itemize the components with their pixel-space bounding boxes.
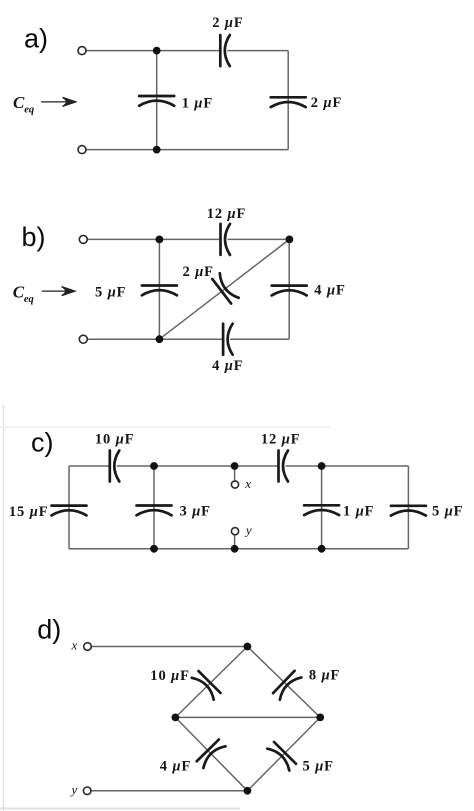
a) wire top left bbox=[86, 50, 220, 52]
node junction b top-right bbox=[286, 236, 294, 244]
d) wire edge top-right bbox=[247, 647, 320, 718]
svg-text:c): c) bbox=[31, 428, 54, 458]
svg-text:15 μF: 15 μF bbox=[9, 504, 49, 520]
d) wire x lead bbox=[91, 646, 247, 648]
node junction c top 3uF bbox=[150, 462, 158, 470]
capacitor C 4uF of d bbox=[197, 740, 226, 769]
capacitor C 10uF of d bbox=[192, 671, 221, 700]
capacitor C 2uF diagonal of b bbox=[212, 273, 238, 303]
capacitor C 4uF right of b bbox=[272, 286, 307, 296]
svg-text:y: y bbox=[244, 523, 252, 538]
node d top bbox=[244, 643, 252, 651]
b) wire left branch bbox=[158, 239, 160, 339]
svg-text:5 μF: 5 μF bbox=[95, 285, 126, 301]
c) wire top bbox=[69, 465, 408, 467]
capacitor C 15uF of c bbox=[52, 506, 87, 516]
b) wire top left bbox=[87, 238, 220, 240]
svg-text:2 μF: 2 μF bbox=[311, 95, 342, 111]
a) wire right branch bbox=[287, 51, 289, 150]
capacitor C 5uF of d bbox=[267, 742, 296, 771]
capacitor C 1uF of a bbox=[139, 96, 174, 106]
b) wire diagonal bbox=[159, 239, 289, 339]
svg-text:5 μF: 5 μF bbox=[432, 504, 463, 520]
node junction c top x bbox=[231, 462, 239, 470]
arrow Ceq a bbox=[41, 97, 76, 106]
node junction b bottom-left bbox=[156, 335, 164, 343]
capacitor C 2uF right of a bbox=[271, 97, 306, 107]
c) wire bottom bbox=[69, 548, 408, 550]
svg-text:1 μF: 1 μF bbox=[182, 96, 213, 112]
svg-text:8 μF: 8 μF bbox=[309, 668, 340, 684]
capacitor C 12uF of c bbox=[279, 451, 289, 482]
svg-text:a): a) bbox=[24, 23, 48, 53]
svg-text:4 μF: 4 μF bbox=[314, 283, 345, 299]
svg-text:5 μF: 5 μF bbox=[303, 759, 334, 775]
node d right bbox=[316, 714, 324, 722]
a) wire bottom bbox=[86, 149, 288, 151]
b) wire bottom left bbox=[87, 338, 223, 340]
node junction c top 1uF bbox=[318, 462, 326, 470]
capacitor C 3uF of c bbox=[137, 506, 172, 516]
svg-text:C: C bbox=[13, 93, 25, 112]
svg-text:y: y bbox=[70, 782, 78, 797]
svg-text:10 μF: 10 μF bbox=[95, 432, 135, 448]
svg-text:C: C bbox=[13, 283, 25, 302]
capacitor C 12uF of b bbox=[221, 224, 231, 255]
svg-text:d): d) bbox=[37, 615, 61, 645]
node junction b top-left bbox=[156, 236, 164, 244]
b) wire bottom right bbox=[230, 338, 289, 340]
d) wire edge bottom-right bbox=[247, 717, 320, 790]
terminal a bottom bbox=[78, 146, 86, 154]
svg-text:x: x bbox=[244, 476, 251, 491]
svg-text:4 μF: 4 μF bbox=[212, 358, 243, 374]
capacitor C 2uF top of a bbox=[220, 35, 230, 66]
capacitor C 1uF of c bbox=[304, 505, 339, 515]
svg-text:3 μF: 3 μF bbox=[180, 504, 211, 520]
svg-text:x: x bbox=[71, 638, 78, 653]
svg-text:4 μF: 4 μF bbox=[160, 759, 191, 775]
c) wire 3uF branch bbox=[153, 466, 155, 549]
terminal c y bbox=[231, 528, 238, 535]
terminal b bottom bbox=[79, 335, 87, 343]
scan artifact left edge bbox=[3, 405, 5, 811]
svg-text:12 μF: 12 μF bbox=[261, 432, 301, 448]
terminal b top bbox=[79, 235, 87, 243]
b) wire right branch bbox=[288, 239, 290, 339]
a) wire left branch bbox=[156, 51, 158, 150]
d) wire y lead bbox=[91, 790, 247, 792]
b) wire top right bbox=[228, 238, 290, 240]
terminal c x bbox=[231, 481, 238, 488]
c) wire 1uF branch bbox=[321, 466, 323, 549]
d) wire edge left-top bbox=[175, 647, 247, 718]
capacitor C 8uF of d bbox=[273, 671, 301, 700]
node junction a bottom bbox=[153, 146, 161, 154]
svg-text:eq: eq bbox=[24, 294, 34, 305]
capacitor C 5uF of b bbox=[142, 286, 177, 296]
capacitor C 5uF of c bbox=[391, 506, 426, 516]
svg-text:10 μF: 10 μF bbox=[150, 668, 190, 684]
c) wire right branch bbox=[407, 466, 409, 549]
a) wire top right bbox=[227, 50, 288, 52]
terminal d y bbox=[83, 787, 91, 795]
capacitor C 4uF bottom of b bbox=[223, 324, 233, 355]
node junction c bottom 3uF bbox=[150, 545, 158, 553]
arrow Ceq b bbox=[42, 287, 75, 296]
c) wire x stub bbox=[234, 466, 236, 481]
svg-text:12 μF: 12 μF bbox=[207, 206, 247, 222]
node junction a top bbox=[153, 47, 161, 55]
d) wire edge left-bottom bbox=[175, 717, 247, 790]
svg-text:1 μF: 1 μF bbox=[343, 504, 374, 520]
svg-text:b): b) bbox=[22, 222, 46, 252]
capacitor C 10uF of c bbox=[110, 451, 120, 482]
scan artifact bottom edge bbox=[0, 808, 240, 810]
svg-text:eq: eq bbox=[24, 105, 34, 116]
terminal a top bbox=[78, 47, 86, 55]
d) wire middle bbox=[175, 716, 320, 718]
scan artifact faint rule bbox=[0, 426, 330, 428]
terminal d x bbox=[84, 643, 92, 651]
node junction c bottom 1uF bbox=[318, 545, 326, 553]
c) wire left branch bbox=[68, 466, 70, 549]
svg-text:2 μF: 2 μF bbox=[183, 264, 214, 280]
node d left bbox=[172, 714, 180, 722]
svg-text:2 μF: 2 μF bbox=[212, 15, 243, 31]
node junction c bottom y bbox=[231, 545, 239, 553]
node d bottom bbox=[244, 787, 252, 795]
c) wire y stub bbox=[234, 535, 236, 549]
